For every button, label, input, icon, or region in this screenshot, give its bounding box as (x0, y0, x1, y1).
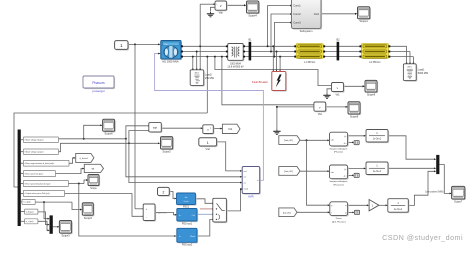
scope Scope8 (348, 102, 361, 119)
wire const2 to PSS1 (169, 192, 176, 200)
svg-text:Conn3: Conn3 (293, 22, 301, 25)
wire mux to Scope7 (425, 165, 451, 195)
bus selector bar (18, 130, 21, 227)
svg-text:(Phaseur): (Phaseur) (334, 151, 343, 154)
svg-text:Out: Out (192, 214, 196, 217)
svg-text:<Rotor angle deviation d_theta: <Rotor angle deviation d_theta (rad)> (24, 162, 54, 165)
wire ic net (38, 221, 50, 231)
svg-text:Conn1: Conn1 (293, 5, 301, 8)
wire phase B main run (181, 51, 410, 53)
svg-text:<Stator voltage vq (pu)>: <Stator voltage vq (pu)> (24, 151, 43, 154)
wire from tag Iabc to power block (297, 211, 330, 213)
svg-text:<i_a (pu)>: <i_a (pu)> (23, 201, 31, 204)
wire sqrt to u2 to Vt (161, 127, 222, 129)
wire Vab to Scope4 (227, 4, 247, 6)
transmission line L1 (294, 44, 325, 64)
wire machine m to bus selector (14, 56, 208, 188)
PSS block 3 (177, 228, 198, 246)
svg-text:Out1: Out1 (314, 13, 320, 16)
svg-text:sqrt: sqrt (153, 125, 158, 129)
gain triangle (369, 200, 379, 211)
wire from tag Vab_B1 to analyzer (300, 139, 330, 206)
wire switch in2 (200, 208, 214, 210)
scope Scope1 (358, 7, 371, 23)
from tag Iabc_B1 (279, 208, 297, 217)
svg-text:Conn2: Conn2 (293, 13, 301, 16)
bus signal tag 9 (21, 219, 38, 224)
svg-text:PSS sys1: PSS sys1 (182, 222, 193, 225)
transfer function TF2 (366, 162, 389, 176)
svg-text:Fault Breaker: Fault Breaker (252, 80, 268, 84)
from tag Vab_B1 (279, 136, 300, 145)
svg-text:wt: wt (92, 166, 95, 170)
wire Vab minus to ground (211, 7, 216, 11)
scope Scope5 (82, 203, 94, 220)
svg-text:<i_b (pu)>: <i_b (pu)> (26, 210, 34, 213)
svg-text:[Vab_B1]: [Vab_B1] (284, 140, 293, 142)
sequence analyzer 1 (330, 132, 349, 153)
wire Vf excitation loop (155, 53, 264, 181)
powergui block (83, 76, 115, 93)
load block Load1 (403, 64, 428, 82)
svg-text:∠u: ∠u (344, 142, 347, 145)
svg-text:Scope7: Scope7 (454, 201, 463, 204)
wire power outs (348, 204, 369, 213)
svg-text:Vstab: Vstab (183, 200, 189, 203)
svg-text:Load1: Load1 (418, 69, 425, 72)
wire Vab plus input (200, 3, 215, 46)
svg-text:1e-3s+1: 1e-3s+1 (394, 209, 403, 211)
svg-text:Scope3: Scope3 (61, 235, 70, 238)
svg-text:Scope8: Scope8 (350, 116, 359, 119)
wire subsystem conn drops (267, 5, 293, 58)
svg-text:1: 1 (207, 141, 209, 145)
from tag Vab_B2 (279, 167, 300, 176)
wire mux to Scope3 (53, 226, 60, 228)
wire vd net (59, 124, 243, 177)
svg-text:[Vab_B2]: [Vab_B2] (284, 171, 293, 173)
subsystem block (292, 0, 323, 33)
wire V1 ground branch (327, 89, 334, 94)
wire Va measurement 2 (221, 56, 316, 106)
wire analyzer2 outs (348, 167, 366, 176)
ground G2 (V1) (323, 93, 330, 98)
svg-text:Subsystem: Subsystem (300, 29, 313, 33)
wire TF3 to mux (408, 170, 436, 205)
scope Scope10 (dw) (88, 175, 100, 190)
PSS block 2 (177, 209, 198, 226)
three-phase transformer (226, 44, 245, 69)
ground G3 (measurement V2) (273, 129, 280, 134)
wire V2 out to scope (325, 106, 348, 108)
svg-text:13.8 kV/500 kV: 13.8 kV/500 kV (227, 66, 244, 69)
wire PSS2 to switch in3 (197, 213, 214, 215)
sqrt function block (149, 123, 163, 133)
svg-text:powergui: powergui (92, 89, 105, 93)
svg-text:2: 2 (162, 190, 164, 194)
svg-text:L2 350 km: L2 350 km (369, 61, 380, 64)
wire analyzer1 outs (348, 135, 366, 143)
wire Va measurement 1 (214, 56, 333, 87)
wire ia net (35, 201, 82, 219)
CSDN watermark (382, 233, 463, 242)
wire V1 out to scope (344, 85, 365, 87)
svg-text:(3ph, Phaseur): (3ph, Phaseur) (332, 220, 346, 223)
voltage measurement V2 (314, 102, 327, 116)
goto tag d_theta (76, 153, 94, 162)
wire V2 ground branch (276, 106, 316, 129)
voltage measurement Vab (215, 1, 228, 14)
svg-text:Phasors: Phasors (92, 81, 105, 85)
bus signal tag 5 (21, 181, 69, 187)
svg-text:Sequence Analyzer: Sequence Analyzer (330, 180, 348, 183)
svg-text:abc: abc (331, 172, 334, 174)
svg-text:∠u: ∠u (344, 175, 347, 178)
svg-text:Scope4: Scope4 (248, 14, 257, 17)
svg-text:Pm: Pm (165, 44, 168, 46)
wire switch to excitation vstab (226, 188, 242, 211)
svg-text:Scope1: Scope1 (359, 20, 368, 23)
constant Vref (199, 138, 218, 151)
svg-text:1e-3s+1: 1e-3s+1 (373, 171, 382, 173)
wire fault breaker drops (272, 45, 281, 71)
svg-text:Scope5: Scope5 (84, 217, 93, 220)
wire PSS1 to switch in1 (196, 199, 215, 204)
load block Load2 (190, 70, 214, 87)
svg-text:A B C: A B C (195, 71, 200, 74)
wire TF2 to mux (388, 167, 436, 169)
terminator T1 (354, 141, 359, 145)
terminator T2 (354, 173, 359, 177)
transmission line L2 (360, 44, 391, 64)
svg-text:M1 1000 MVA: M1 1000 MVA (162, 59, 179, 63)
Pa computation block (143, 204, 167, 222)
wire gain to TF3 (379, 204, 388, 206)
svg-text:d_theta1: d_theta1 (80, 157, 89, 160)
svg-text:In: In (179, 215, 181, 217)
svg-text:[Iab_B1]: [Iab_B1] (283, 212, 291, 214)
bus signal tag 1 (21, 137, 59, 142)
svg-text:Scope2: Scope2 (163, 150, 172, 153)
wire PSS3 to switch in4 (197, 219, 214, 236)
svg-text:Vb2: Vb2 (318, 114, 323, 116)
wire drops to Load1 (406, 46, 415, 65)
terminator T3 (354, 210, 359, 214)
scope Scope7 (452, 186, 466, 203)
svg-text:Pa=Pm-Pe: Pa=Pm-Pe (157, 213, 168, 215)
wire Pa to PSS2 (155, 213, 177, 216)
bus signal tag 4 (21, 171, 56, 177)
wire vq net (59, 130, 243, 184)
goto tag wt (84, 164, 103, 172)
wire dw net (68, 179, 176, 237)
scope Scope6 (103, 119, 116, 135)
svg-text:Vab: Vab (219, 11, 224, 14)
scope Scope4 (247, 1, 260, 17)
wire TF1 to mux (388, 136, 436, 160)
goto tag Vt (222, 124, 240, 133)
svg-text:5000 MW: 5000 MW (418, 72, 429, 75)
svg-text:Scope6: Scope6 (105, 133, 114, 136)
scope Scope9 (365, 80, 378, 96)
svg-text:2: 2 (210, 128, 211, 130)
svg-text:Vref: Vref (205, 148, 210, 151)
fault breaker (252, 72, 287, 92)
svg-text:AVR: AVR (248, 195, 254, 199)
mux (line powers) (436, 155, 439, 174)
scope Scope2 (161, 137, 174, 154)
bus signal tag 7 (21, 199, 35, 204)
svg-text:(Phaseur1): (Phaseur1) (333, 183, 344, 186)
svg-text:Scope: Scope (90, 188, 97, 190)
math function u2 (203, 125, 215, 135)
wire Vref to excitation (217, 142, 243, 172)
wire Pe0 to Pa block (65, 193, 145, 217)
voltage measurement V1 (332, 83, 345, 97)
scope Scope3 (59, 221, 72, 238)
svg-text:PSS sys2: PSS sys2 (182, 244, 193, 247)
svg-text:Mean: Mean (190, 236, 195, 238)
bus signal tag 8 (21, 209, 38, 214)
bus B1 (248, 39, 252, 61)
svg-text:abc: abc (331, 139, 334, 141)
mux (currents) (50, 215, 53, 233)
svg-text:vstab: vstab (244, 188, 249, 191)
multiport switch (213, 198, 228, 223)
svg-text:<i_c (pu)>: <i_c (pu)> (26, 220, 34, 223)
svg-text:In: In (179, 236, 181, 238)
svg-text:250 MW: 250 MW (205, 77, 215, 80)
wire Pm constant (128, 43, 160, 209)
svg-text:vref: vref (244, 170, 248, 173)
sequence analyzer 2 (330, 165, 349, 186)
svg-text:vd: vd (244, 177, 246, 179)
wire phase C main run (181, 56, 413, 58)
PSS block 1 (177, 193, 197, 208)
constant 1 (Pm) (115, 41, 129, 51)
svg-text:L1 350 km: L1 350 km (304, 61, 315, 64)
svg-text:<Rotor speed wm (pu)>: <Rotor speed wm (pu)> (24, 172, 43, 175)
wire d_theta to goto (69, 157, 76, 163)
svg-text:Sequence Analyzer: Sequence Analyzer (330, 147, 348, 150)
wire ib net (38, 212, 50, 226)
svg-text:A B C: A B C (407, 65, 412, 68)
svg-text:vq: vq (244, 182, 246, 184)
ground G1 (Vab) (207, 12, 214, 17)
svg-text:Power: Power (336, 217, 342, 220)
bus signal tag 3 (21, 160, 69, 166)
excitation system block (242, 167, 261, 199)
svg-text:Vt1: Vt1 (228, 127, 233, 131)
power measurement block (330, 202, 349, 224)
wire from tag Vab_B2 to analyzer (300, 170, 330, 172)
svg-text:<Stator voltage vd (pu)>: <Stator voltage vd (pu)> (24, 139, 43, 142)
wire subsystem Out1 to Scope1 (321, 13, 357, 15)
constant 2 (PSS select) (158, 187, 171, 196)
svg-text:<Rotor speed deviation dw (pu): <Rotor speed deviation dw (pu)> (24, 182, 50, 185)
bus B2 (336, 39, 340, 61)
svg-text:Line power (MW): Line power (MW) (425, 190, 443, 193)
synchronous machine M1 (161, 41, 183, 64)
wire phase A main run (181, 45, 407, 47)
wire drops to Load2 (192, 45, 201, 71)
svg-text:<Output active power Pe0 (pu)>: <Output active power Pe0 (pu)> (24, 192, 49, 195)
wire wm to goto (56, 168, 85, 174)
bus signal tag 6 (21, 190, 65, 196)
svg-text:-: - (146, 215, 147, 219)
svg-text:PSS1: PSS1 (183, 205, 190, 208)
bus signal tag 2 (21, 149, 59, 154)
svg-text:1e-3s+1: 1e-3s+1 (373, 139, 382, 141)
transfer function TF3 (388, 199, 410, 214)
transfer function TF1 (366, 130, 389, 144)
svg-text:CSDN @studyer_domi: CSDN @studyer_domi (382, 233, 463, 242)
svg-text:Vb1: Vb1 (335, 94, 340, 96)
svg-text:Scope9: Scope9 (367, 93, 376, 96)
